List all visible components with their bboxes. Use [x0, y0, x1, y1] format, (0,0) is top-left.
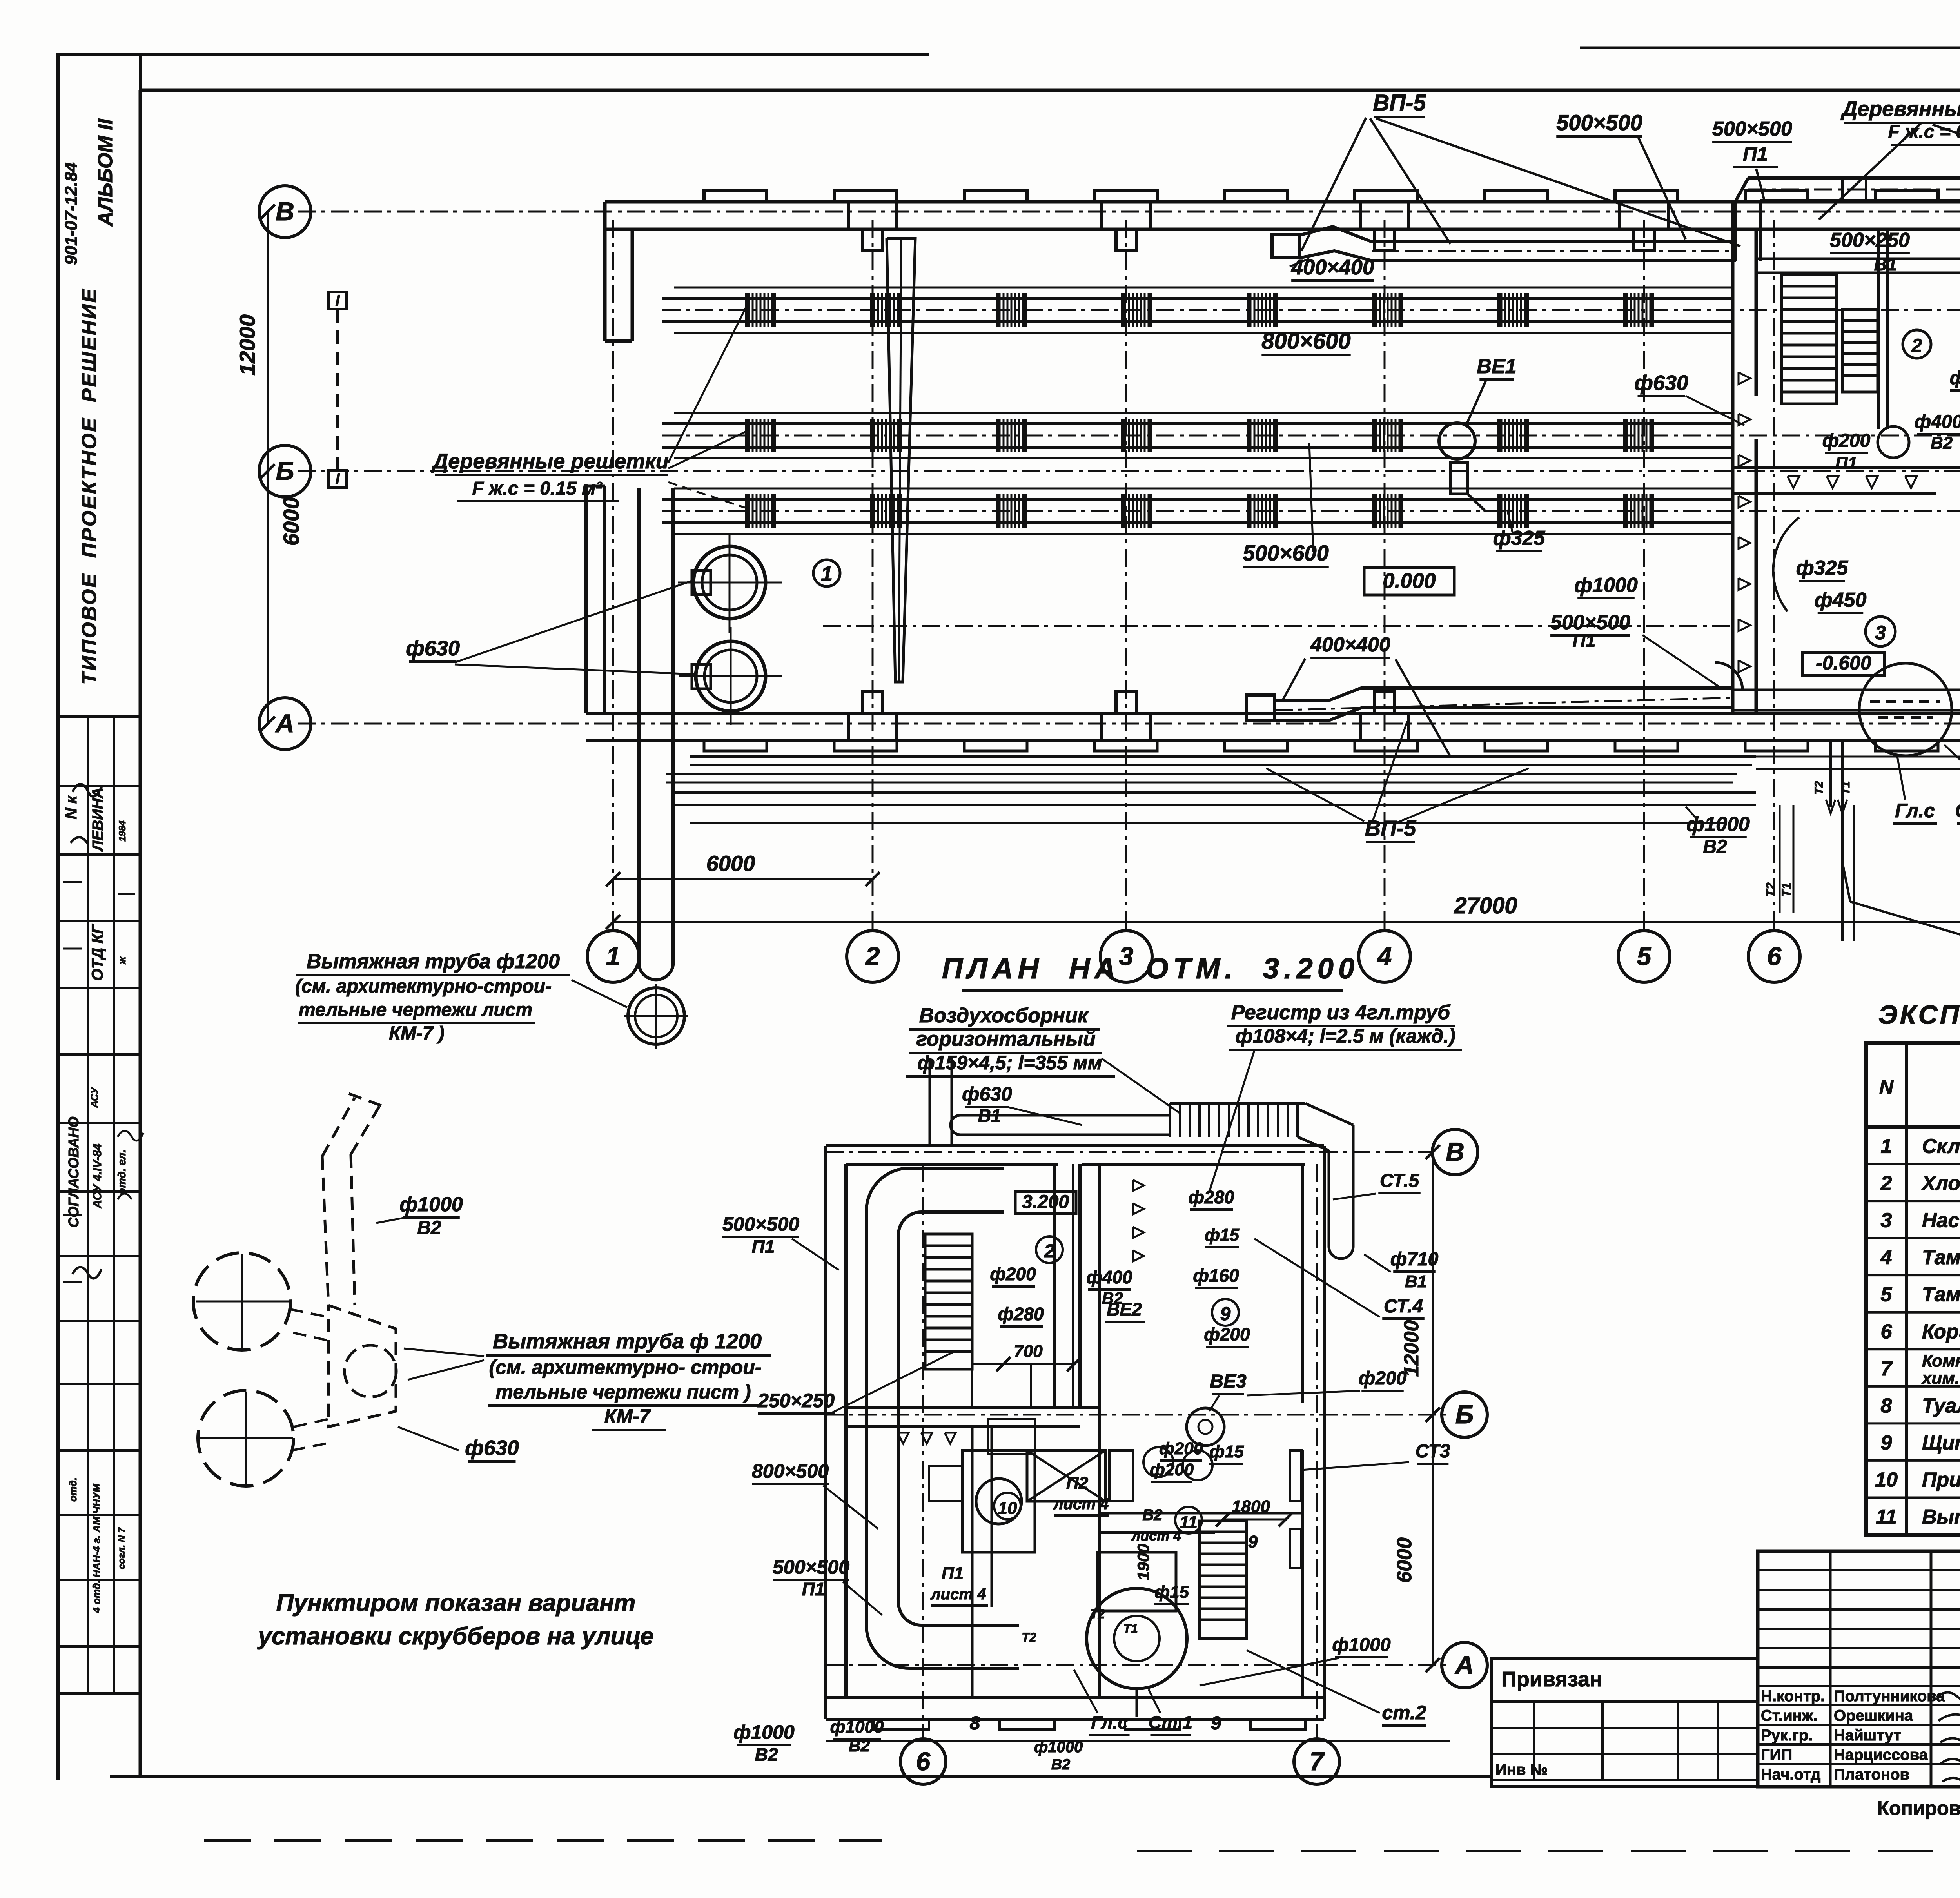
vozduhosbornik comb — [1169, 1103, 1171, 1137]
axis circle 3 — [1100, 931, 1152, 982]
svg-text:700: 700 — [1014, 1342, 1043, 1361]
svg-text:901-07-12.84: 901-07-12.84 — [62, 162, 81, 265]
axis circle 6 — [1748, 931, 1800, 982]
uzel upravleniya circle — [1859, 663, 1952, 756]
svg-text:Коридор: Коридор — [1922, 1320, 1960, 1343]
svg-text:Полтунникова: Полтунникова — [1834, 1688, 1945, 1705]
axis circle 1 — [587, 931, 639, 982]
svg-text:6: 6 — [1767, 942, 1782, 971]
svg-text:отд.: отд. — [67, 1477, 79, 1502]
svg-text:7: 7 — [1881, 1357, 1893, 1380]
supply duct row 1 — [662, 297, 1733, 300]
svg-text:10: 10 — [998, 1499, 1017, 1518]
svg-text:500×500: 500×500 — [1712, 118, 1792, 140]
bottom plan bottom wall — [826, 1696, 1324, 1699]
svg-text:1800: 1800 — [1232, 1497, 1270, 1516]
svg-text:Хлородозаторная: Хлородозаторная — [1921, 1172, 1960, 1195]
svg-text:ф710: ф710 — [1390, 1249, 1439, 1270]
bottom plan interior walls — [1078, 1164, 1082, 1407]
supply duct row 2 — [662, 422, 1733, 425]
svg-text:Тамбур насосной: Тамбур насосной — [1922, 1283, 1960, 1306]
svg-text:ф630: ф630 — [406, 637, 460, 660]
svg-text:Вытяжная венткамера: Вытяжная венткамера — [1922, 1506, 1960, 1528]
svg-text:Т2: Т2 — [1813, 781, 1826, 795]
svg-text:ф630: ф630 — [1634, 371, 1688, 395]
vertical dimension line 12000/6000 — [267, 212, 269, 724]
svg-text:ф160: ф160 — [1950, 368, 1960, 388]
svg-text:ж: ж — [116, 956, 128, 965]
svg-text:П1: П1 — [1573, 630, 1596, 651]
svg-text:Т2: Т2 — [1022, 1630, 1036, 1644]
svg-text:Копировал: Коршунова: Копировал: Коршунова — [1877, 1797, 1960, 1819]
left column signature marks — [71, 784, 102, 845]
svg-text:лист 4: лист 4 — [1131, 1528, 1181, 1544]
scrubber variant dashed circle 2 — [198, 1390, 294, 1486]
svg-text:Б: Б — [1455, 1400, 1474, 1429]
svg-text:АСУ: АСУ — [89, 1086, 100, 1108]
bottom duct continues to pipe — [1733, 689, 1960, 691]
svg-text:П1: П1 — [942, 1564, 964, 1583]
svg-text:6000: 6000 — [279, 497, 303, 546]
svg-text:1: 1 — [821, 562, 833, 586]
ceiling duct P1 — [1372, 240, 1736, 243]
left wall lower — [603, 486, 606, 713]
svg-text:ф200: ф200 — [1150, 1460, 1194, 1479]
svg-text:Воздухосборник: Воздухосборник — [919, 1004, 1089, 1027]
bottom plan inner labels — [1036, 1236, 1063, 1263]
signatures squiggles — [1936, 1693, 1960, 1785]
svg-text:11: 11 — [1180, 1513, 1198, 1532]
axis circle B — [259, 445, 311, 497]
scrubber stubs — [290, 1309, 328, 1317]
svg-text:Щитовая: Щитовая — [1922, 1432, 1960, 1454]
svg-text:ВЕ1: ВЕ1 — [1477, 355, 1516, 378]
svg-text:6000: 6000 — [1393, 1537, 1416, 1583]
svg-text:500×250: 500×250 — [1830, 229, 1910, 252]
svg-text:отд. гл.: отд. гл. — [116, 1150, 128, 1195]
top wall piers — [848, 202, 897, 229]
svg-text:хим. защиты: хим. защиты — [1921, 1368, 1960, 1388]
svg-text:Т1: Т1 — [1123, 1622, 1138, 1636]
svg-text:Привязан: Привязан — [1501, 1668, 1602, 1691]
comb elbow down — [1305, 1103, 1353, 1125]
svg-text:5: 5 — [1881, 1283, 1893, 1306]
svg-text:П2: П2 — [1066, 1473, 1089, 1493]
svg-text:В1: В1 — [1874, 254, 1897, 274]
svg-text:СОГЛАСОВАНО: СОГЛАСОВАНО — [65, 1116, 82, 1227]
svg-text:7: 7 — [1310, 1747, 1325, 1776]
supply duct row 3 — [662, 498, 1733, 501]
svg-text:В2: В2 — [849, 1737, 870, 1755]
svg-text:1: 1 — [606, 942, 621, 971]
svg-text:В1: В1 — [1405, 1272, 1427, 1291]
P1 unit boxes — [972, 1364, 1031, 1407]
svg-text:400×400: 400×400 — [1310, 633, 1390, 656]
svg-text:Инв №: Инв № — [1495, 1761, 1548, 1778]
svg-text:П1: П1 — [1743, 143, 1768, 165]
fan unit 11 big — [1087, 1588, 1187, 1689]
triangles column bottom plan — [1133, 1180, 1144, 1191]
scrubber circle 1 — [693, 546, 766, 619]
svg-text:АСУ 4.IV-84: АСУ 4.IV-84 — [91, 1143, 104, 1208]
svg-text:ф200: ф200 — [1822, 430, 1871, 451]
bottom dimension line 6000 — [613, 878, 873, 880]
svg-text:Н.контр.: Н.контр. — [1761, 1688, 1825, 1705]
svg-text:500×500: 500×500 — [722, 1213, 799, 1235]
svg-text:В: В — [1446, 1137, 1465, 1166]
bottom plan stairs right — [1200, 1521, 1247, 1639]
svg-text:П1: П1 — [1835, 454, 1857, 473]
title block middle grid — [1758, 1551, 1960, 1787]
svg-text:Нач.отд: Нач.отд — [1761, 1766, 1820, 1783]
svg-text:(см. архитектурно-строи-: (см. архитектурно-строи- — [295, 976, 552, 997]
svg-text:Орешкина: Орешкина — [1834, 1707, 1913, 1724]
svg-text:2: 2 — [1880, 1172, 1892, 1195]
svg-text:ф450: ф450 — [1815, 589, 1867, 611]
room2 fan circle — [1878, 426, 1909, 458]
bottom plan dim line — [1432, 1152, 1434, 1665]
svg-text:2: 2 — [1911, 336, 1922, 356]
svg-text:ф15: ф15 — [1154, 1582, 1189, 1602]
svg-text:250×250: 250×250 — [757, 1390, 835, 1412]
svg-text:1984: 1984 — [117, 820, 128, 841]
section mark I-I — [328, 292, 347, 309]
svg-text:(см. архитектурно- строи-: (см. архитектурно- строи- — [489, 1356, 761, 1378]
svg-text:ГИП: ГИП — [1761, 1746, 1792, 1764]
bottom plan pipe below — [826, 1740, 1450, 1742]
svg-text:500×500: 500×500 — [773, 1556, 849, 1578]
svg-text:лист 4: лист 4 — [930, 1586, 986, 1603]
svg-text:11: 11 — [1876, 1506, 1897, 1528]
svg-text:Ст.1: Ст.1 — [1149, 1712, 1192, 1733]
svg-text:Приточная венткамера: Приточная венткамера — [1922, 1468, 1960, 1491]
svg-text:Ст.инж.: Ст.инж. — [1761, 1707, 1817, 1724]
roof duct to f630 cap — [1748, 176, 1960, 180]
svg-text:Комната инвентаря: Комната инвентаря — [1922, 1351, 1960, 1370]
svg-text:9: 9 — [1220, 1304, 1231, 1325]
triangles along wall — [1788, 476, 1799, 488]
svg-text:ф400: ф400 — [1915, 412, 1960, 432]
svg-text:ВЕ2: ВЕ2 — [1107, 1299, 1142, 1319]
svg-text:N: N — [1879, 1076, 1894, 1098]
top wall of building — [605, 200, 1960, 204]
svg-text:ф108×4; l=2.5 м (кажд.): ф108×4; l=2.5 м (кажд.) — [1235, 1025, 1455, 1047]
svg-text:В2: В2 — [1051, 1756, 1071, 1773]
svg-text:тельные чертежи лист: тельные чертежи лист — [299, 1000, 532, 1020]
svg-text:Гл.с: Гл.с — [1895, 800, 1935, 822]
svg-text:Найштут: Найштут — [1834, 1727, 1901, 1744]
svg-text:А: А — [1454, 1650, 1474, 1679]
bottom plan right wall — [1323, 1146, 1326, 1719]
svg-text:9: 9 — [1881, 1432, 1892, 1454]
svg-text:Т2: Т2 — [1090, 1607, 1105, 1621]
exhaust pipe vertical band — [637, 488, 641, 965]
sheet outer border top — [58, 53, 929, 56]
svg-text:6: 6 — [1881, 1320, 1893, 1343]
small pumps — [1143, 1447, 1173, 1477]
svg-text:1900: 1900 — [1134, 1544, 1152, 1580]
svg-text:4: 4 — [1377, 942, 1392, 971]
svg-text:ф159×4,5; l=355 мм: ф159×4,5; l=355 мм — [917, 1052, 1102, 1074]
duct 500x250 room2 — [1756, 258, 1960, 260]
svg-text:9: 9 — [1248, 1532, 1258, 1551]
room tag 3 — [1866, 617, 1895, 646]
chlorine warning triangles column — [1739, 372, 1750, 384]
svg-text:Вытяжная труба ф 1200: Вытяжная труба ф 1200 — [493, 1330, 762, 1353]
big U supply duct left — [865, 1211, 868, 1625]
svg-text:СТ.4: СТ.4 — [1384, 1296, 1423, 1317]
top duct 400x400 elbow — [1272, 234, 1299, 258]
svg-text:12000: 12000 — [235, 314, 260, 376]
svg-text:3: 3 — [1881, 1209, 1892, 1232]
svg-text:800×600: 800×600 — [1261, 328, 1350, 354]
sheet inner frame top — [140, 89, 1960, 92]
svg-text:9: 9 — [1211, 1713, 1221, 1734]
svg-text:Вытяжная труба ф1200: Вытяжная труба ф1200 — [307, 950, 560, 973]
axis circle V — [259, 186, 311, 238]
svg-text:10: 10 — [1875, 1468, 1898, 1491]
svg-text:В2: В2 — [417, 1218, 441, 1238]
svg-text:4: 4 — [1880, 1246, 1892, 1269]
svg-text:СТ.5: СТ.5 — [1380, 1170, 1420, 1191]
bottom plan level box 3.200 — [1015, 1192, 1076, 1214]
sheet bottom scan lines — [204, 1839, 882, 1842]
inlet duct from top — [929, 1058, 931, 1146]
svg-text:ВЕ3: ВЕ3 — [1210, 1371, 1247, 1392]
svg-text:ф630: ф630 — [962, 1083, 1012, 1105]
svg-text:2: 2 — [1044, 1241, 1055, 1262]
VE3 fan — [1187, 1408, 1224, 1446]
svg-text:Регистр из 4гл.труб: Регистр из 4гл.труб — [1231, 1001, 1451, 1024]
horizontal wall between rooms 2 and 3 — [1733, 466, 1960, 469]
bottom plan walls left — [824, 1146, 827, 1719]
svg-text:Ст.1: Ст.1 — [1955, 800, 1960, 822]
svg-text:ф200: ф200 — [1204, 1324, 1250, 1345]
svg-text:Т2: Т2 — [1764, 882, 1778, 897]
svg-text:КМ-7 ): КМ-7 ) — [389, 1023, 445, 1044]
svg-text:6: 6 — [916, 1747, 931, 1776]
svg-text:Насосная: Насосная — [1922, 1209, 1960, 1232]
axis circle 2 — [847, 931, 898, 982]
svg-text:ф15: ф15 — [1209, 1442, 1244, 1461]
svg-text:ПЛАН НА ОТМ. 3.200: ПЛАН НА ОТМ. 3.200 — [942, 952, 1359, 985]
svg-text:ф1000: ф1000 — [733, 1721, 795, 1743]
scrubber variant pipe diagonal — [322, 1098, 355, 1156]
svg-text:5: 5 — [1637, 942, 1652, 971]
svg-text:ф1000: ф1000 — [1332, 1635, 1391, 1655]
svg-text:ЭКСПЛИКАЦИЯ ПОМЕЩЕНИЙ: ЭКСПЛИКАЦИЯ ПОМЕЩЕНИЙ — [1878, 999, 1960, 1030]
svg-text:ОТД КГ: ОТД КГ — [89, 923, 106, 981]
svg-text:Т1: Т1 — [1839, 781, 1852, 795]
svg-text:500×500: 500×500 — [1556, 110, 1642, 135]
level box -0.600 — [1802, 652, 1885, 676]
top plan axis lines vertical — [612, 220, 614, 931]
svg-text:500×600: 500×600 — [1243, 541, 1329, 565]
title block privyazan box — [1492, 1659, 1758, 1787]
svg-text:I: I — [335, 292, 340, 309]
svg-text:400×400: 400×400 — [1291, 256, 1374, 279]
bottom duct 400x400 with jog — [1247, 695, 1275, 721]
room tag 1 — [813, 560, 840, 586]
svg-text:ф200: ф200 — [990, 1264, 1036, 1284]
svg-text:В2: В2 — [1931, 434, 1953, 453]
svg-text:ф1000: ф1000 — [1034, 1738, 1083, 1756]
svg-text:ВП-5: ВП-5 — [1373, 90, 1426, 116]
scrubber variant manifold — [328, 1305, 396, 1427]
stairs in room 2 — [1782, 274, 1837, 404]
left wall upper — [603, 202, 607, 341]
left margin strip box — [58, 54, 140, 716]
sheet outer border left — [56, 54, 60, 1780]
small stairs — [1842, 310, 1878, 392]
svg-text:ф280: ф280 — [998, 1304, 1044, 1324]
svg-text:Рук.гр.: Рук.гр. — [1761, 1727, 1813, 1744]
svg-text:В1: В1 — [978, 1105, 1001, 1126]
pipe f1000 V2 below building — [674, 791, 1756, 794]
svg-text:В2: В2 — [1142, 1506, 1162, 1524]
svg-text:ф400: ф400 — [1086, 1267, 1132, 1287]
bottom dimension line 27000 — [613, 921, 1960, 923]
left stamp grid — [57, 716, 59, 1693]
svg-text:тельные чертежи пист ): тельные чертежи пист ) — [495, 1381, 751, 1403]
svg-text:А: А — [275, 709, 294, 738]
bottom plan axis dashdot — [826, 1151, 1433, 1153]
svg-text:В2: В2 — [1703, 836, 1727, 857]
svg-text:3.200: 3.200 — [1022, 1192, 1069, 1212]
svg-text:ф160: ф160 — [1193, 1265, 1239, 1286]
svg-text:ф200: ф200 — [1159, 1439, 1203, 1458]
svg-text:Б: Б — [276, 456, 294, 485]
level box 0.000 hall — [1364, 568, 1454, 595]
svg-text:N к: N к — [63, 795, 80, 819]
axis circle 4 — [1359, 931, 1410, 982]
svg-text:Платонов: Платонов — [1834, 1766, 1909, 1783]
fan unit 10 — [962, 1450, 1035, 1552]
scrubber variant dashed circle 1 — [193, 1253, 290, 1350]
svg-text:П1: П1 — [752, 1236, 775, 1257]
svg-text:ф325: ф325 — [1493, 527, 1546, 550]
svg-text:4 отд. НАН-4 г. АМ ЧНУМ: 4 отд. НАН-4 г. АМ ЧНУМ — [91, 1483, 102, 1613]
svg-text:установки скрубберов на улице: установки скрубберов на улице — [257, 1623, 653, 1650]
radiators bottom plan — [1290, 1450, 1301, 1501]
svg-text:ст.2: ст.2 — [1382, 1702, 1426, 1724]
sheet frame bottom — [110, 1775, 1492, 1778]
bottom wall of building — [586, 712, 1960, 715]
under-wall channel lines — [690, 755, 1756, 758]
svg-text:Склад хлора: Склад хлора — [1922, 1135, 1960, 1158]
svg-text:ф630: ф630 — [465, 1436, 519, 1460]
svg-text:F ж.с = 0.15 м²: F ж.с = 0.15 м² — [1888, 122, 1960, 142]
crane rail wedge — [887, 238, 915, 682]
axis circle A — [259, 698, 311, 749]
svg-text:-0.600: -0.600 — [1816, 652, 1871, 674]
svg-text:ф1000: ф1000 — [830, 1717, 884, 1737]
bottom plan stairs left — [925, 1234, 972, 1369]
exhaust pipe end circle — [628, 988, 684, 1044]
svg-text:ТИПОВОЕ ПРОЕКТНОЕ РЕШЕНИЕ: ТИПОВОЕ ПРОЕКТНОЕ РЕШЕНИЕ — [78, 287, 101, 684]
svg-text:8: 8 — [1881, 1394, 1892, 1417]
sheet inner frame left — [139, 90, 142, 1776]
svg-text:СТ3: СТ3 — [1416, 1441, 1450, 1462]
svg-text:П1: П1 — [802, 1579, 825, 1599]
room divider vertical wall axis 6 — [1731, 202, 1735, 713]
svg-text:КМ-7: КМ-7 — [604, 1405, 651, 1427]
svg-text:Гл.с: Гл.с — [1091, 1712, 1127, 1733]
svg-text:0.000: 0.000 — [1383, 569, 1436, 593]
svg-text:I: I — [335, 470, 340, 488]
svg-text:2: 2 — [865, 942, 880, 971]
svg-text:Нарциссова: Нарциссова — [1834, 1746, 1928, 1764]
T1 T2 risers — [1829, 740, 1832, 807]
svg-text:ф280: ф280 — [1188, 1187, 1234, 1207]
svg-text:6000: 6000 — [706, 851, 755, 876]
svg-text:Т1: Т1 — [1779, 882, 1793, 897]
svg-text:Деревянные решетки: Деревянные решетки — [1840, 97, 1960, 121]
heater block P2 — [1027, 1450, 1105, 1501]
svg-text:Деревянные решетки: Деревянные решетки — [431, 450, 669, 473]
svg-text:27000: 27000 — [1454, 893, 1517, 918]
scrubber circle 2 — [696, 641, 766, 711]
svg-text:800×500: 800×500 — [752, 1460, 829, 1482]
top plan axis lines horizontal — [298, 211, 1960, 213]
hall axis dash line — [823, 625, 1733, 627]
room2 vertical duct f200 — [1877, 229, 1880, 429]
vozduhosbornik duct — [960, 1114, 1170, 1117]
svg-text:В2: В2 — [755, 1744, 778, 1765]
svg-text:8: 8 — [970, 1713, 980, 1734]
svg-text:ф200: ф200 — [1359, 1368, 1407, 1389]
svg-text:Туалет: Туалет — [1922, 1394, 1960, 1417]
svg-text:ф325: ф325 — [1796, 557, 1849, 579]
svg-text:В: В — [276, 197, 294, 226]
svg-text:ф1000: ф1000 — [399, 1193, 463, 1216]
svg-text:3: 3 — [1875, 622, 1886, 644]
scrubber variant pipe vertical — [322, 1156, 328, 1305]
svg-text:ф1000: ф1000 — [1574, 574, 1638, 597]
bottom plan top wall — [826, 1144, 1324, 1147]
svg-text:лист 4: лист 4 — [1053, 1495, 1109, 1513]
svg-text:горизонтальный: горизонтальный — [916, 1028, 1095, 1051]
svg-text:Пунктиром показан вариант: Пунктиром показан вариант — [276, 1590, 636, 1617]
svg-text:1: 1 — [1881, 1135, 1892, 1158]
svg-text:АЛЬБОМ II: АЛЬБОМ II — [94, 118, 117, 227]
bottom plan duct vertical — [1053, 1164, 1056, 1407]
explication table frame — [1866, 1043, 1960, 1535]
svg-text:ф15: ф15 — [1205, 1225, 1239, 1245]
svg-text:F ж.с = 0.15 м²: F ж.с = 0.15 м² — [472, 478, 603, 499]
VE1 fan circle — [1439, 423, 1475, 459]
axis circle 5 — [1618, 931, 1670, 982]
svg-text:Тамбур хлордозаторной: Тамбур хлордозаторной — [1922, 1246, 1960, 1269]
scrubber variant inner circle — [345, 1345, 396, 1397]
bottom plan axis circles — [1432, 1129, 1478, 1175]
svg-text:согл. N 7: согл. N 7 — [116, 1527, 127, 1569]
elbow up through roof — [1734, 201, 1737, 261]
